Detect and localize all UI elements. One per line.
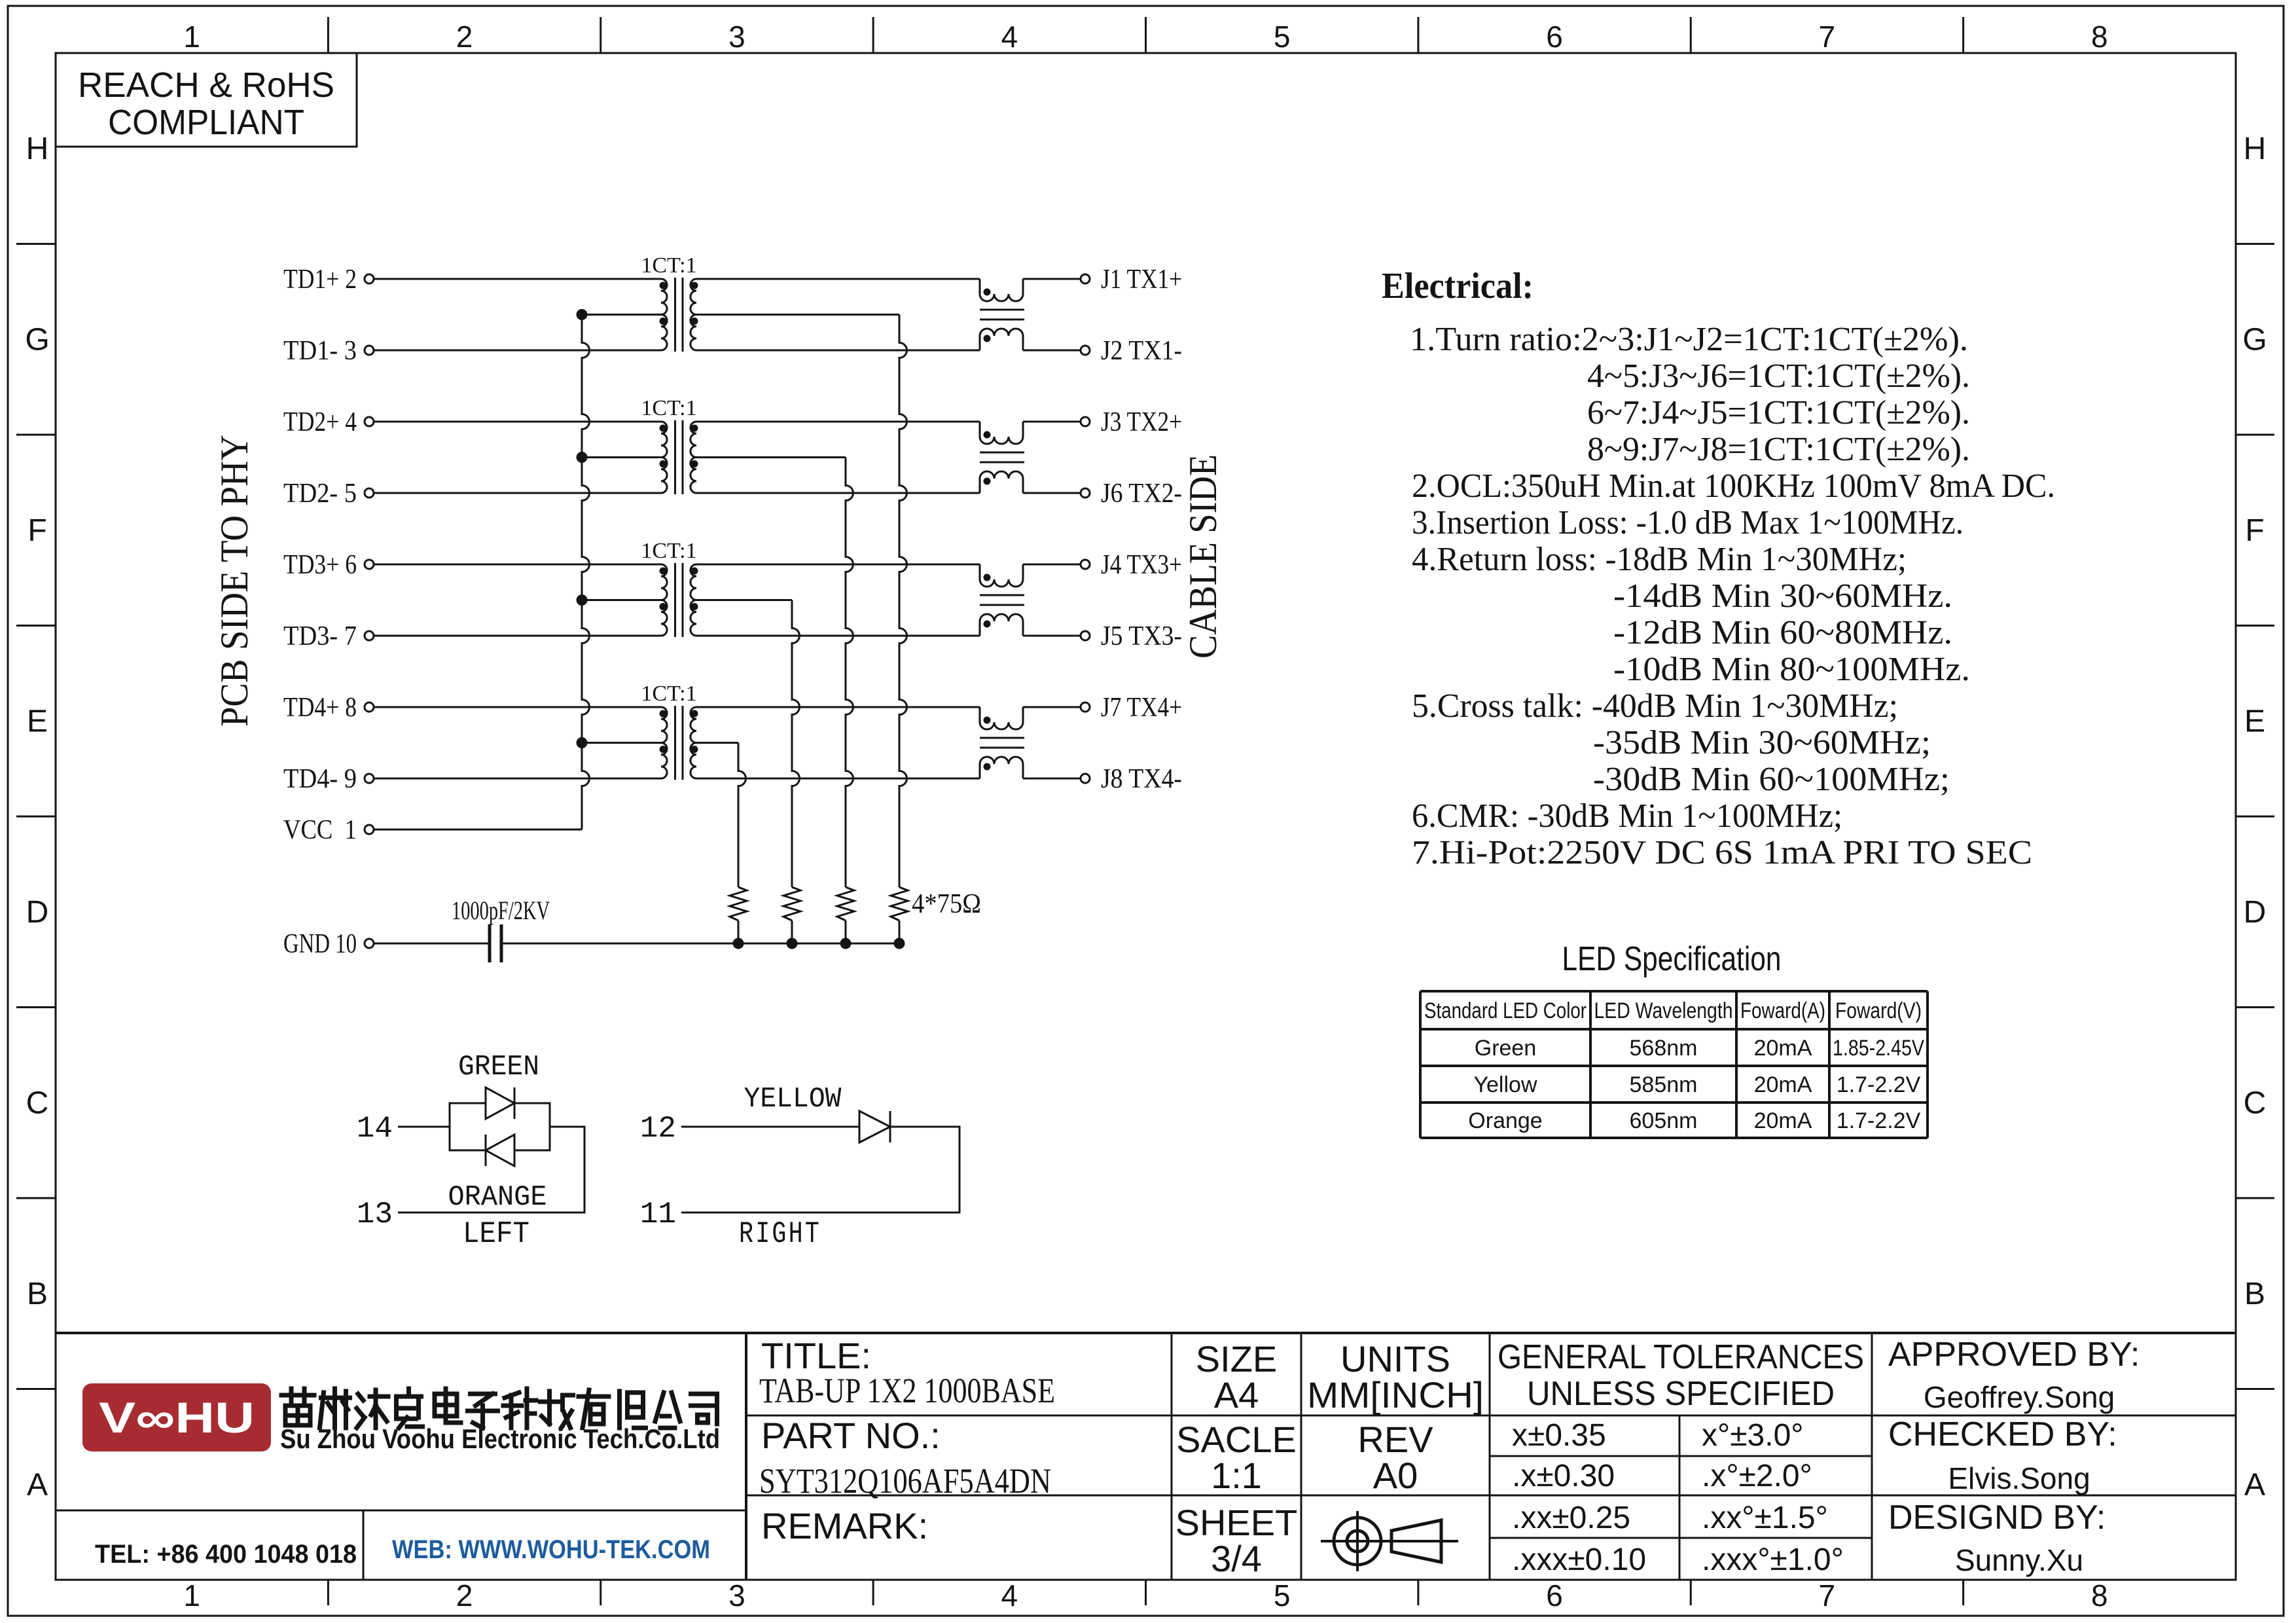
- svg-text:A: A: [27, 1467, 48, 1502]
- wire: [1023, 706, 1081, 708]
- common-mode choke CM4: [980, 707, 1024, 778]
- svg-text:MM[INCH]: MM[INCH]: [1307, 1374, 1484, 1415]
- svg-text:.xxx±0.10: .xxx±0.10: [1512, 1542, 1646, 1577]
- pin 8 terminal: [365, 702, 374, 712]
- wire VCC center-tap bus: [582, 315, 590, 830]
- svg-text:TD4- 9: TD4- 9: [283, 764, 357, 794]
- svg-text:J6 TX2-: J6 TX2-: [1101, 479, 1182, 509]
- wire to termination resistor: [899, 315, 907, 888]
- wire: [1023, 564, 1081, 566]
- wire: [791, 921, 793, 943]
- wire: [696, 421, 980, 423]
- svg-text:UNITS: UNITS: [1340, 1338, 1450, 1379]
- svg-text:Foward(A): Foward(A): [1740, 998, 1825, 1023]
- svg-text:SYT312Q106AF5A4DN: SYT312Q106AF5A4DN: [759, 1461, 1051, 1501]
- svg-text:.x°±2.0°: .x°±2.0°: [1702, 1459, 1812, 1493]
- junction: [787, 938, 798, 949]
- svg-text:PCB SIDE TO PHY: PCB SIDE TO PHY: [213, 435, 256, 727]
- svg-text:6.CMR: -30dB Min 1~100MHz;: 6.CMR: -30dB Min 1~100MHz;: [1412, 797, 1842, 835]
- svg-text:PART NO.:: PART NO.:: [761, 1415, 941, 1456]
- wire: [738, 921, 740, 943]
- company name (CJK): [281, 1389, 717, 1428]
- svg-text:GENERAL TOLERANCES: GENERAL TOLERANCES: [1498, 1338, 1864, 1376]
- svg-text:GND 10: GND 10: [283, 929, 357, 959]
- svg-text:F: F: [27, 513, 46, 548]
- svg-text:Standard LED Color: Standard LED Color: [1424, 998, 1587, 1023]
- wire: [1023, 350, 1081, 352]
- svg-text:D: D: [26, 895, 49, 930]
- terminal J2: [1081, 346, 1090, 355]
- wire: [1023, 635, 1081, 637]
- svg-text:20mA: 20mA: [1754, 1108, 1812, 1133]
- svg-text:4.Return loss: -18dB Min 1~30M: 4.Return loss: -18dB Min 1~30MHz;: [1412, 541, 1907, 578]
- svg-text:G: G: [2242, 322, 2267, 357]
- svg-text:TITLE:: TITLE:: [761, 1335, 871, 1376]
- svg-text:-10dB Min 80~100MHz.: -10dB Min 80~100MHz.: [1613, 651, 1970, 688]
- svg-text:1CT:1: 1CT:1: [641, 539, 696, 563]
- svg-text:5: 5: [1274, 20, 1291, 54]
- LED D1 GREEN: [458, 1051, 539, 1119]
- svg-text:8: 8: [2091, 1578, 2108, 1613]
- svg-text:G: G: [25, 322, 49, 357]
- svg-text:20mA: 20mA: [1754, 1072, 1812, 1097]
- svg-text:A4: A4: [1214, 1374, 1259, 1415]
- svg-text:.xx±0.25: .xx±0.25: [1512, 1501, 1630, 1535]
- transformer T2 (1CT:1): [641, 396, 698, 494]
- svg-text:RIGHT: RIGHT: [739, 1217, 821, 1251]
- svg-text:x±0.35: x±0.35: [1512, 1418, 1606, 1453]
- svg-text:TAB-UP 1X2 1000BASE: TAB-UP 1X2 1000BASE: [759, 1371, 1055, 1410]
- terminal J8: [1081, 774, 1090, 783]
- wire: [696, 564, 980, 566]
- junction: [577, 737, 588, 748]
- wire primary center tap: [582, 456, 661, 458]
- title block: [56, 1333, 2236, 1580]
- pin 6 terminal: [365, 560, 374, 569]
- svg-text:B: B: [2244, 1277, 2265, 1311]
- svg-text:3.Insertion Loss: -1.0 dB Max: 3.Insertion Loss: -1.0 dB Max 1~100MHz.: [1412, 504, 1964, 541]
- wire: [845, 921, 847, 943]
- wire: [1023, 778, 1081, 780]
- bi-color LED box (left): [450, 1103, 550, 1150]
- svg-text:.x±0.30: .x±0.30: [1512, 1459, 1615, 1493]
- pin 4 terminal: [365, 417, 374, 426]
- svg-text:H: H: [26, 132, 49, 166]
- svg-text:8~9:J7~J8=1CT:1CT(±2%).: 8~9:J7~J8=1CT:1CT(±2%).: [1587, 431, 1970, 468]
- pin 7 terminal: [365, 631, 374, 640]
- svg-text:REV: REV: [1357, 1419, 1433, 1460]
- resistor R1 (75 ohm): [891, 887, 908, 921]
- svg-text:7.Hi-Pot:2250V DC 6S 1mA PRI T: 7.Hi-Pot:2250V DC 6S 1mA PRI TO SEC: [1412, 834, 2032, 871]
- wire: [374, 421, 661, 423]
- common-mode choke CM1: [980, 279, 1024, 350]
- svg-text:ORANGE: ORANGE: [448, 1181, 547, 1214]
- svg-text:J5 TX3-: J5 TX3-: [1101, 621, 1182, 651]
- svg-text:CHECKED BY:: CHECKED BY:: [1888, 1415, 2117, 1453]
- wire: [696, 492, 980, 494]
- svg-text:TD2- 5: TD2- 5: [283, 479, 357, 509]
- svg-text:A: A: [2244, 1467, 2265, 1502]
- wire: [696, 278, 980, 280]
- svg-text:C: C: [2244, 1085, 2267, 1120]
- wire: [696, 778, 980, 780]
- LED D3 YELLOW: [744, 1083, 891, 1142]
- wire secondary center tap: [696, 314, 899, 316]
- svg-text:Sunny.Xu: Sunny.Xu: [1955, 1543, 2083, 1577]
- svg-text:SHEET: SHEET: [1175, 1502, 1298, 1543]
- pin 2 terminal: [365, 274, 374, 283]
- wire: [1023, 492, 1081, 494]
- Electrical specifications text: [1382, 266, 2055, 871]
- svg-text:TD1+ 2: TD1+ 2: [283, 264, 357, 295]
- svg-text:Electrical:: Electrical:: [1382, 266, 1534, 306]
- svg-text:UNLESS SPECIFIED: UNLESS SPECIFIED: [1527, 1375, 1835, 1413]
- wire: [681, 1127, 960, 1213]
- svg-text:SACLE: SACLE: [1176, 1419, 1297, 1460]
- svg-text:DESIGND BY:: DESIGND BY:: [1888, 1499, 2106, 1537]
- wire: [696, 635, 980, 637]
- wire to termination resistor: [846, 458, 853, 888]
- svg-text:Yellow: Yellow: [1473, 1072, 1537, 1097]
- terminal J5: [1081, 631, 1090, 640]
- wire: [374, 564, 661, 566]
- VOOHU logo: [82, 1383, 271, 1451]
- wire: [696, 706, 980, 708]
- svg-text:COMPLIANT: COMPLIANT: [108, 103, 304, 142]
- svg-text:J7 TX4+: J7 TX4+: [1101, 693, 1182, 723]
- junction: [733, 938, 744, 949]
- svg-text:1CT:1: 1CT:1: [641, 682, 696, 706]
- wire to termination resistor: [738, 743, 746, 888]
- terminal J7: [1081, 702, 1090, 712]
- svg-text:J4 TX3+: J4 TX3+: [1101, 550, 1182, 580]
- resistor R3 (75 ohm): [783, 887, 800, 921]
- svg-text:-14dB Min 30~60MHz.: -14dB Min 30~60MHz.: [1613, 577, 1952, 615]
- common-mode choke CM2: [980, 422, 1024, 493]
- wire: [374, 278, 661, 280]
- terminal J6: [1081, 488, 1090, 498]
- svg-text:4*75Ω: 4*75Ω: [912, 889, 981, 919]
- svg-text:1.Turn ratio:2~3:J1~J2=1CT:1CT: 1.Turn ratio:2~3:J1~J2=1CT:1CT(±2%).: [1410, 321, 1968, 358]
- svg-text:Green: Green: [1475, 1036, 1537, 1061]
- wire: [374, 706, 661, 708]
- svg-text:E: E: [27, 704, 48, 739]
- svg-text:8: 8: [2091, 20, 2108, 54]
- svg-text:WEB: WWW.WOHU-TEK.COM: WEB: WWW.WOHU-TEK.COM: [392, 1535, 710, 1564]
- wire: [899, 921, 901, 943]
- svg-text:1: 1: [183, 20, 200, 54]
- capacitor C1 1000pF/2KV: [452, 896, 550, 962]
- wire VCC: [374, 829, 582, 831]
- wire: [398, 1127, 584, 1213]
- wire: [374, 778, 661, 780]
- wire primary center tap: [582, 599, 661, 601]
- wire secondary center tap: [696, 456, 846, 458]
- wire: [374, 492, 661, 494]
- svg-text:4: 4: [1001, 20, 1018, 54]
- wire secondary center tap: [696, 742, 738, 744]
- svg-text:Su Zhou Voohu Electronic Tech.: Su Zhou Voohu Electronic Tech.Co.Ltd: [280, 1423, 720, 1454]
- svg-text:J3 TX2+: J3 TX2+: [1101, 407, 1182, 437]
- wire secondary center tap: [696, 599, 792, 601]
- wire to termination resistor: [792, 600, 800, 888]
- svg-text:C: C: [26, 1085, 49, 1120]
- svg-text:3: 3: [728, 20, 745, 54]
- wire: [374, 635, 661, 637]
- svg-text:TEL: +86 400 1048 018: TEL: +86 400 1048 018: [95, 1540, 357, 1569]
- svg-text:1.7-2.2V: 1.7-2.2V: [1837, 1108, 1921, 1133]
- svg-text:LEFT: LEFT: [463, 1217, 529, 1251]
- svg-text:.xxx°±1.0°: .xxx°±1.0°: [1702, 1542, 1844, 1577]
- pin 10 terminal (GND): [365, 939, 374, 948]
- svg-text:TD3- 7: TD3- 7: [283, 621, 357, 651]
- terminal J3: [1081, 417, 1090, 426]
- resistor R2 (75 ohm): [837, 887, 854, 921]
- svg-text:TD1- 3: TD1- 3: [283, 336, 357, 366]
- wire: [1023, 421, 1081, 423]
- common-mode choke CM3: [980, 564, 1024, 636]
- svg-text:7: 7: [1819, 20, 1836, 54]
- svg-text:13: 13: [357, 1197, 393, 1231]
- svg-text:1000pF/2KV: 1000pF/2KV: [452, 896, 550, 925]
- svg-text:TD3+ 6: TD3+ 6: [283, 550, 357, 580]
- svg-text:2: 2: [456, 20, 473, 54]
- terminal J1: [1081, 274, 1090, 283]
- svg-text:Foward(V): Foward(V): [1835, 998, 1922, 1023]
- svg-text:-35dB Min 30~60MHz;: -35dB Min 30~60MHz;: [1593, 724, 1931, 761]
- svg-text:LED Wavelength: LED Wavelength: [1594, 998, 1733, 1023]
- svg-text:5.Cross talk: -40dB Min 1~30MH: 5.Cross talk: -40dB Min 1~30MHz;: [1412, 687, 1898, 725]
- svg-text:E: E: [2244, 704, 2265, 739]
- junction: [894, 938, 905, 949]
- svg-text:B: B: [27, 1277, 48, 1311]
- svg-text:TD4+ 8: TD4+ 8: [283, 693, 357, 723]
- svg-text:Orange: Orange: [1468, 1108, 1542, 1133]
- svg-text:1.85-2.45V: 1.85-2.45V: [1833, 1036, 1924, 1061]
- pin 5 terminal: [365, 488, 374, 498]
- resistor R4 (75 ohm): [730, 887, 747, 921]
- svg-text:REMARK:: REMARK:: [761, 1505, 928, 1546]
- junction: [840, 938, 852, 949]
- svg-text:7: 7: [1819, 1578, 1836, 1613]
- svg-text:J1 TX1+: J1 TX1+: [1101, 264, 1182, 295]
- pin 3 terminal: [365, 346, 374, 355]
- svg-text:-30dB Min 60~100MHz;: -30dB Min 60~100MHz;: [1593, 761, 1950, 798]
- pin 9 terminal: [365, 774, 374, 783]
- svg-text:CABLE SIDE: CABLE SIDE: [1181, 454, 1225, 659]
- svg-text:D: D: [2244, 895, 2267, 930]
- wire: [501, 943, 899, 945]
- svg-text:6: 6: [1546, 20, 1563, 54]
- svg-text:585nm: 585nm: [1630, 1072, 1698, 1097]
- REACH & RoHS compliance box: [56, 53, 357, 147]
- LED D2 ORANGE: [448, 1135, 547, 1214]
- wire: [374, 350, 661, 352]
- junction: [577, 452, 588, 463]
- wire: [1023, 278, 1081, 280]
- svg-text:SIZE: SIZE: [1196, 1338, 1277, 1379]
- svg-text:V∞HU: V∞HU: [99, 1393, 255, 1442]
- transformer T1 (1CT:1): [641, 253, 698, 352]
- svg-text:J2 TX1-: J2 TX1-: [1101, 336, 1182, 366]
- svg-text:1CT:1: 1CT:1: [641, 396, 696, 420]
- svg-text:VCC 1: VCC 1: [283, 815, 357, 845]
- svg-text:REACH & RoHS: REACH & RoHS: [78, 65, 334, 105]
- junction: [577, 309, 588, 320]
- transformer T4 (1CT:1): [641, 682, 698, 780]
- svg-text:20mA: 20mA: [1754, 1036, 1812, 1061]
- svg-text:GREEN: GREEN: [458, 1051, 539, 1084]
- wire: [681, 1126, 859, 1128]
- svg-text:A0: A0: [1373, 1455, 1418, 1496]
- svg-text:4~5:J3~J6=1CT:1CT(±2%).: 4~5:J3~J6=1CT:1CT(±2%).: [1587, 357, 1970, 395]
- svg-text:.xx°±1.5°: .xx°±1.5°: [1702, 1501, 1828, 1535]
- svg-text:F: F: [2245, 513, 2264, 548]
- svg-text:3: 3: [728, 1578, 745, 1613]
- wire GND: [374, 943, 490, 945]
- svg-text:1: 1: [183, 1578, 200, 1613]
- junction: [577, 594, 588, 606]
- svg-text:-12dB Min 60~80MHz.: -12dB Min 60~80MHz.: [1613, 614, 1952, 651]
- wire: [696, 350, 980, 352]
- svg-text:J8 TX4-: J8 TX4-: [1101, 764, 1182, 794]
- svg-text:14: 14: [357, 1112, 393, 1146]
- wire primary center tap: [582, 742, 661, 744]
- svg-text:Geoffrey.Song: Geoffrey.Song: [1924, 1380, 2115, 1414]
- svg-text:5: 5: [1274, 1578, 1291, 1613]
- svg-text:x°±3.0°: x°±3.0°: [1702, 1418, 1803, 1453]
- svg-text:2.OCL:350uH Min.at 100KHz 100m: 2.OCL:350uH Min.at 100KHz 100mV 8mA DC.: [1412, 467, 2055, 505]
- svg-text:3/4: 3/4: [1211, 1538, 1262, 1579]
- svg-text:4: 4: [1001, 1578, 1018, 1613]
- third-angle projection symbol: [1321, 1511, 1458, 1571]
- svg-text:6~7:J4~J5=1CT:1CT(±2%).: 6~7:J4~J5=1CT:1CT(±2%).: [1587, 394, 1970, 431]
- svg-text:APPROVED BY:: APPROVED BY:: [1888, 1336, 2140, 1374]
- terminal J4: [1081, 560, 1090, 569]
- svg-text:605nm: 605nm: [1630, 1108, 1698, 1133]
- transformer T3 (1CT:1): [641, 539, 698, 637]
- svg-text:1:1: 1:1: [1211, 1455, 1262, 1496]
- svg-text:12: 12: [640, 1112, 676, 1146]
- svg-text:YELLOW: YELLOW: [744, 1083, 842, 1116]
- svg-text:1.7-2.2V: 1.7-2.2V: [1837, 1072, 1921, 1097]
- wire: [398, 1126, 450, 1128]
- svg-text:1CT:1: 1CT:1: [641, 253, 696, 278]
- pin 1 terminal (VCC): [365, 825, 374, 834]
- svg-text:2: 2: [456, 1578, 473, 1613]
- svg-text:6: 6: [1546, 1578, 1563, 1613]
- svg-text:568nm: 568nm: [1630, 1036, 1698, 1061]
- svg-text:H: H: [2244, 132, 2267, 166]
- svg-text:Elvis.Song: Elvis.Song: [1948, 1461, 2090, 1495]
- LED Specification table: [1420, 940, 1928, 1138]
- svg-text:LED Specification: LED Specification: [1562, 940, 1782, 978]
- wire primary center tap: [582, 314, 661, 316]
- svg-text:TD2+ 4: TD2+ 4: [283, 407, 357, 437]
- svg-text:11: 11: [640, 1197, 676, 1231]
